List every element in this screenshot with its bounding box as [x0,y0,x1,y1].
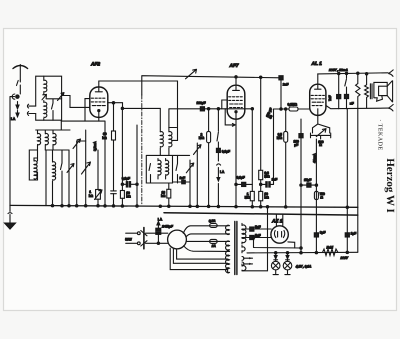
cap 0.1uF AF7 [235,176,253,187]
lamp taps arrows [242,257,253,266]
svg-text:15μF: 15μF [304,178,311,182]
resistor 0.3M [259,170,263,191]
tube AF7 [227,85,245,119]
svg-text:260V: 260V [340,256,349,260]
voltage selector [168,230,187,249]
svg-text:1nF: 1nF [272,178,278,182]
coil tap arrow [42,95,46,100]
svg-text:kΩ: kΩ [161,194,166,198]
bus B LA arrow [157,218,163,229]
speaker terminal hook top [389,70,394,76]
svg-text:AF7: AF7 [229,63,239,69]
coil Le [53,150,56,206]
cap 5uF a [242,225,271,231]
svg-text:9,5mA: 9,5mA [93,141,97,151]
AL1 top stem [317,74,319,84]
dots on HT line [275,251,349,254]
cap 2x50uF [156,225,174,244]
transformer core [235,222,237,275]
speaker body [374,82,387,101]
volume pot P1 [95,190,103,206]
trimmer C5 arrow [186,69,197,79]
wire grid AF7 rail [169,109,252,128]
cap 2nF [279,76,289,111]
wire earth lead [10,97,15,206]
svg-text:4,3V , 0,1A: 4,3V , 0,1A [295,264,312,268]
grid stopper 0.2M [274,102,310,111]
ground [5,205,16,229]
trimmer C2 arrow [67,150,74,206]
svg-text:5μF: 5μF [255,225,261,229]
svg-text:0,2MΩ: 0,2MΩ [288,102,298,106]
svg-text:nF: nF [350,102,354,106]
svg-text:0,1μF: 0,1μF [237,176,245,180]
antenna switch [17,80,21,94]
svg-text:100pF: 100pF [197,101,206,105]
output transformer primary [365,73,369,109]
svg-text:pF: pF [294,143,298,147]
resistor 10k AF7 [259,191,263,206]
dropper resistor zigzag [356,72,360,252]
switch LA column [216,108,220,206]
oscillator box [146,155,189,183]
resistor 10k AF2 [120,107,138,205]
svg-text:1A: 1A [212,244,217,248]
selector bottom wires [170,248,227,269]
svg-text:44 mA: 44 mA [312,153,316,163]
fuse 1A [210,239,218,247]
transformer primary winding 2 [226,241,230,250]
svg-text:Herzog W I: Herzog W I [384,158,396,213]
HV secondary [242,223,246,244]
osc coil 2 [166,159,169,180]
tube AL1 [310,84,326,115]
svg-text:· TEKADE: · TEKADE [377,119,383,150]
svg-text:1μF: 1μF [351,231,357,235]
svg-text:Ω: Ω [319,143,322,147]
band switch hook 1 [27,104,35,108]
transformer primary winding 3 [226,251,230,273]
svg-text:50W: 50W [125,238,132,242]
trimmer C1 arrow [58,93,65,101]
osc coil 1 [158,159,161,180]
heater drop to HT line [346,109,348,253]
anode top rail [318,73,388,74]
HT dots [235,76,237,78]
osc resistor 13k [167,183,171,206]
svg-text:5μF: 5μF [255,233,261,237]
svg-text:8μF: 8μF [320,230,326,234]
svg-text:2nF: 2nF [283,83,289,87]
tuning coil bank top rail [36,120,70,130]
bus junction dots [51,204,348,208]
AF2 anode wire [108,103,161,132]
pilot lamp 2 [283,253,292,275]
svg-text:kΩ: kΩ [89,194,94,198]
AF7 grid box [222,100,235,126]
cap 1uF right [345,231,356,237]
tuning coil Lb [45,130,48,150]
anode resistor 30k [111,102,117,206]
wire cathode rail [61,121,105,206]
osc switch left [149,164,151,184]
AF7 cathode wire [235,119,237,206]
coil loop left [29,150,37,180]
cap 100pF [197,101,206,111]
heater secondary [242,264,246,271]
svg-text:AZ 1: AZ 1 [271,218,283,224]
AF2 grid box [85,99,90,122]
selector output wires [183,226,229,252]
grid resistor 2M [207,108,211,206]
trimmer C3 arrow [73,139,81,206]
antenna coil box [36,76,62,120]
cap 8uF left [314,230,325,237]
lower speaker wire [326,106,389,109]
main bus [10,205,358,207]
osc switch right [176,155,178,183]
wire screen vertical [136,125,138,206]
cap 0.1uF AF2 [122,176,137,187]
trimmer C6 arrow [186,160,194,206]
osc padder cap dot 1nF [173,176,191,184]
HT line 252 [247,251,358,254]
resistor 750R [314,191,318,199]
svg-text:LA: LA [158,218,163,222]
mains plug [141,228,168,249]
resistor 0.5M [284,108,288,207]
HT link line [254,238,302,249]
cap 15uF [300,178,318,187]
svg-text:kΩ: kΩ [102,136,107,140]
wave switch S2 [45,150,69,206]
mains terminals [126,232,141,245]
svg-text:LA: LA [220,170,225,174]
hum pot 100R [311,129,331,253]
output transformer core [370,84,372,99]
cap 5uF b [242,233,271,239]
antenna [13,65,28,81]
svg-text:260V , 38mA: 260V , 38mA [328,68,348,72]
wave switch S1 [46,99,62,120]
pilot lamp 1 [271,253,280,275]
HT rail H1 [142,76,281,95]
svg-text:Feld: Feld [327,246,334,250]
svg-text:1nF: 1nF [180,176,186,180]
AF7 top stem [235,77,237,85]
tuning coil La [38,130,41,150]
svg-text:0,1μF: 0,1μF [122,176,130,180]
coil Ld [34,158,38,180]
svg-text:7nF: 7nF [328,95,332,101]
svg-text:kΩ: kΩ [126,195,131,199]
svg-text:Ω: Ω [320,195,323,199]
wire pot branch [77,141,98,190]
anode choke switch [344,72,348,108]
transformer primary winding 1 [226,225,230,234]
svg-text:MΩ: MΩ [245,195,251,199]
IF coupling wire [169,127,177,129]
heater line AL1 [299,119,303,253]
AF2 grid cap lead [99,81,178,140]
svg-text:2×50μF: 2×50μF [161,225,174,229]
antenna coil L2 [44,101,47,121]
svg-text:MΩ: MΩ [264,174,270,178]
svg-text:LA: LA [11,117,16,121]
svg-text:MΩ: MΩ [277,136,283,140]
tuning coil Lc [53,130,56,150]
plug arrows LA [16,102,19,117]
tube AF2 [90,87,108,121]
heater bus B [164,213,358,215]
svg-text:0,5A: 0,5A [209,219,216,223]
AL1 cathode trapezoid [313,115,330,133]
svg-text:AL 1: AL 1 [311,61,323,67]
AL1 grid riser [273,109,275,184]
antenna socket [12,94,19,99]
svg-text:MΩ: MΩ [199,136,205,140]
antenna coil L1 [44,76,47,94]
IF coil secondary [169,128,172,156]
fuse 0.5A [209,219,217,227]
heater return wire [242,207,268,271]
lamp secondary [242,245,245,252]
svg-text:0,1μF: 0,1μF [222,150,230,154]
gang line [141,95,143,204]
IF coil primary [160,132,163,156]
cap 7nF left [328,72,354,108]
speaker terminal hook bottom [389,105,394,111]
field coil Feld [323,246,349,260]
resistor 1M [250,108,254,207]
padder C7 arrow [194,143,202,206]
wire to AF2 grid [62,96,90,108]
screen rail vertical [260,77,262,170]
tuning cap C4 arrow [82,130,91,206]
svg-text:AF2: AF2 [90,62,100,68]
band switch hook 2 [27,112,35,116]
cap 1nF coupling [260,178,278,187]
rectifier AZ1 [271,215,295,249]
speaker cone [387,81,392,102]
svg-text:kΩ: kΩ [264,195,269,199]
